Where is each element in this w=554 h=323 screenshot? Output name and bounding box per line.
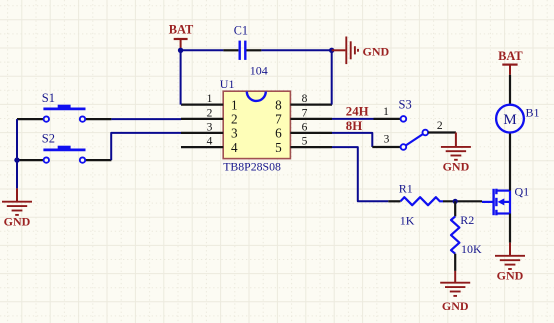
svg-text:U1: U1	[220, 77, 235, 91]
svg-text:24H: 24H	[346, 105, 369, 119]
svg-text:2: 2	[231, 112, 238, 127]
svg-text:GND: GND	[4, 215, 31, 229]
svg-text:6: 6	[302, 122, 308, 134]
svg-text:BAT: BAT	[498, 49, 523, 63]
svg-text:GND: GND	[443, 160, 470, 174]
svg-text:5: 5	[275, 140, 282, 155]
svg-text:Q1: Q1	[515, 184, 530, 198]
svg-text:1: 1	[207, 93, 213, 105]
svg-text:M: M	[503, 112, 516, 128]
svg-text:5: 5	[302, 136, 308, 148]
svg-text:R1: R1	[399, 181, 413, 195]
svg-text:1K: 1K	[400, 214, 415, 228]
svg-text:3: 3	[384, 133, 390, 145]
svg-text:2: 2	[437, 120, 443, 132]
svg-text:R2: R2	[460, 213, 474, 227]
svg-text:7: 7	[302, 108, 308, 120]
svg-text:8H: 8H	[346, 119, 362, 133]
svg-text:S1: S1	[42, 91, 55, 105]
svg-text:B1: B1	[526, 106, 540, 120]
svg-text:3: 3	[231, 126, 238, 141]
svg-text:GND: GND	[442, 299, 469, 313]
svg-text:GND: GND	[363, 44, 390, 58]
svg-text:2: 2	[207, 108, 213, 120]
svg-text:S2: S2	[42, 131, 55, 145]
svg-text:GND: GND	[497, 269, 524, 283]
svg-text:6: 6	[275, 126, 282, 141]
svg-text:C1: C1	[234, 24, 248, 38]
svg-text:BAT: BAT	[169, 23, 194, 37]
svg-text:TB8P28S08: TB8P28S08	[223, 160, 281, 174]
svg-text:8: 8	[275, 97, 282, 112]
svg-text:7: 7	[275, 112, 282, 127]
svg-text:3: 3	[207, 122, 213, 134]
svg-text:1: 1	[231, 97, 238, 112]
svg-text:104: 104	[250, 64, 268, 78]
svg-text:10K: 10K	[461, 242, 482, 256]
svg-text:S3: S3	[399, 98, 412, 112]
svg-text:4: 4	[207, 136, 213, 148]
svg-text:4: 4	[231, 140, 238, 155]
svg-text:1: 1	[383, 106, 389, 118]
svg-text:8: 8	[302, 93, 308, 105]
